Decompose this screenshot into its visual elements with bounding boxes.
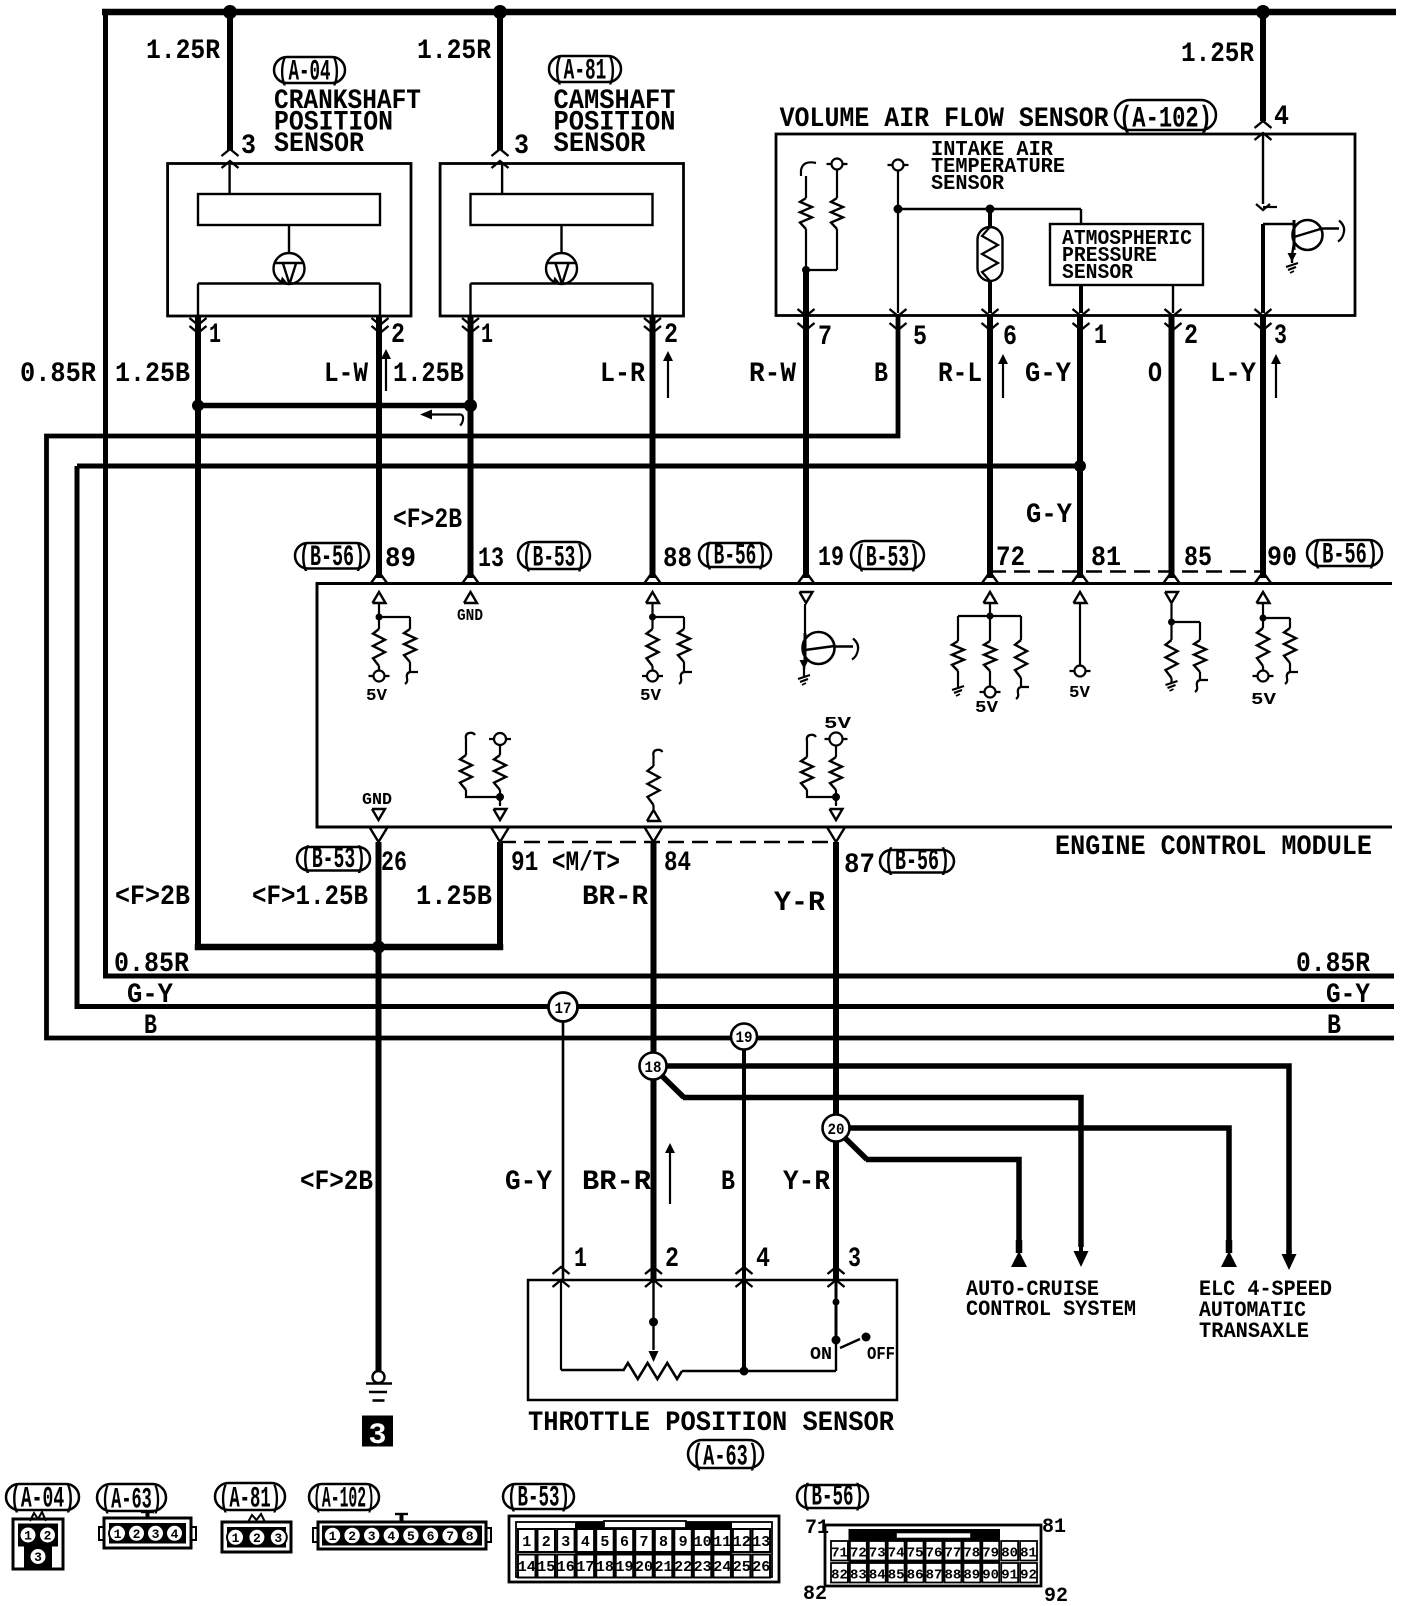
wire: R-L from VAF pin 6 to ECM pin 72 bbox=[987, 315, 993, 578]
connector capsule B-56 (pin 89) bbox=[295, 543, 369, 569]
svg-text:6: 6 bbox=[1003, 322, 1017, 353]
wire: APS pin 2 drop bbox=[1172, 285, 1174, 313]
svg-text:72: 72 bbox=[996, 543, 1025, 574]
wire: main 1.25R power bus (top) bbox=[102, 9, 1396, 16]
VAF pin 2 terminal bbox=[1165, 309, 1182, 316]
cam pin 1 terminal bbox=[462, 318, 479, 325]
svg-text:5V: 5V bbox=[640, 687, 662, 706]
wire: 1.25B from ECM pin 91 down to junction bbox=[497, 842, 503, 947]
wire: 1.25R drop to camshaft sensor pin 3 bbox=[497, 12, 503, 150]
node: junction dot G-Y branch bbox=[1074, 460, 1086, 472]
connector capsule B-56 (pin 88) bbox=[699, 543, 771, 567]
svg-text:Y-R: Y-R bbox=[774, 888, 825, 919]
svg-text:(A-04): (A-04) bbox=[278, 55, 341, 89]
connector capsule A-63 (TPS) bbox=[688, 1440, 763, 1468]
svg-text:G-Y: G-Y bbox=[1025, 359, 1071, 390]
transistor inside ECM (pin 19) bbox=[803, 632, 835, 664]
cam pin 2 terminal bbox=[644, 318, 661, 325]
VAF pin 3 terminal bbox=[1255, 309, 1272, 316]
svg-text:26: 26 bbox=[752, 1559, 770, 1576]
svg-text:3: 3 bbox=[561, 1534, 570, 1551]
svg-text:18: 18 bbox=[596, 1559, 614, 1576]
splice 18 on BR-R wire bbox=[640, 1053, 667, 1080]
wire: APS pin 1 drop bbox=[1079, 285, 1083, 313]
ECM internal: pin 72 network (3 resistors to 5V) bbox=[984, 592, 997, 603]
component: throttle position sensor box bbox=[528, 1280, 897, 1400]
VAF internal: pin 4 feed stub with end tick bbox=[1262, 134, 1264, 204]
svg-text:26: 26 bbox=[381, 848, 407, 879]
wire: 1.25B from crank pin 1 down to junction and ECM area bbox=[195, 316, 201, 947]
svg-text:24: 24 bbox=[713, 1559, 731, 1576]
svg-text:74: 74 bbox=[888, 1546, 905, 1562]
svg-text:1.25B: 1.25B bbox=[416, 882, 492, 913]
svg-text:1: 1 bbox=[209, 320, 221, 351]
svg-text:21: 21 bbox=[654, 1559, 672, 1576]
svg-text:1.25R: 1.25R bbox=[146, 36, 220, 67]
svg-text:2: 2 bbox=[348, 1529, 356, 1544]
svg-text:81: 81 bbox=[1042, 1516, 1066, 1539]
component: atmospheric pressure sensor box bbox=[1080, 209, 1082, 224]
svg-text:71: 71 bbox=[831, 1546, 848, 1562]
svg-text:92: 92 bbox=[1020, 1568, 1037, 1584]
svg-text:10: 10 bbox=[694, 1534, 712, 1551]
svg-text:22: 22 bbox=[674, 1559, 692, 1576]
svg-text:73: 73 bbox=[869, 1546, 886, 1562]
VAF internal: intake air temperature sensor terminal bbox=[888, 164, 909, 166]
node: junction dot bus/camshaft feed bbox=[493, 5, 507, 19]
svg-text:(B-53): (B-53) bbox=[301, 842, 366, 876]
svg-text:19: 19 bbox=[615, 1559, 633, 1576]
svg-text:G-Y: G-Y bbox=[1326, 980, 1370, 1011]
wire: junction bar at bottom (1.25B tie) bbox=[198, 944, 500, 947]
svg-text:(A-81): (A-81) bbox=[553, 54, 617, 88]
flow arrow beside L-W wire bbox=[385, 355, 387, 391]
svg-text:VOLUME AIR FLOW SENSOR: VOLUME AIR FLOW SENSOR bbox=[780, 104, 1109, 135]
VAF internal: output transistor bbox=[1263, 223, 1294, 225]
TPS internal: pin 1 leg to potentiometer bbox=[560, 1280, 562, 1370]
node: junction dot at cam pin1 wire bbox=[464, 399, 477, 412]
connector capsule A-81 bbox=[549, 56, 621, 82]
svg-text:86: 86 bbox=[907, 1568, 924, 1584]
wire: IAT sensor vertical to pin 5 bbox=[897, 171, 899, 314]
flow arrow beside L-R wire bbox=[667, 357, 669, 398]
svg-text:<F>2B: <F>2B bbox=[300, 1167, 373, 1198]
svg-text:(B-53): (B-53) bbox=[522, 541, 586, 575]
svg-text:G-Y: G-Y bbox=[1026, 500, 1072, 531]
svg-text:ENGINE CONTROL MODULE: ENGINE CONTROL MODULE bbox=[1055, 832, 1372, 863]
flow arrow beside R-L wire bbox=[1002, 360, 1004, 398]
svg-text:1: 1 bbox=[329, 1529, 337, 1544]
connector capsule B-53 (pin 26) bbox=[297, 847, 370, 871]
ground reference number 3 (black box) bbox=[362, 1416, 393, 1447]
wire: BR-R from ECM pin 84 down to TPS pin 2 bbox=[651, 842, 657, 1280]
TPS internal: potentiometer resistor bbox=[623, 1363, 682, 1379]
wire: B from splice 19 down to TPS pin 4 bbox=[742, 1050, 746, 1281]
svg-text:2: 2 bbox=[44, 1529, 52, 1544]
svg-text:8: 8 bbox=[466, 1529, 474, 1544]
wire: BR-R branch from splice 18 to ELC transaxle (right, down-arrow) bbox=[667, 1066, 1290, 1253]
svg-text:(B-56): (B-56) bbox=[1311, 538, 1378, 572]
ground symbol (body ground) bbox=[373, 1371, 385, 1383]
VAF pin 7 terminal bbox=[798, 309, 815, 316]
svg-text:SENSOR: SENSOR bbox=[274, 129, 364, 160]
crank pin 2 terminal bbox=[372, 318, 389, 325]
TPS internal: pin 4 leg bbox=[742, 1280, 746, 1371]
svg-text:(A-102): (A-102) bbox=[313, 1482, 375, 1516]
wire: L-R from cam pin 2 down to ECM pin 88 bbox=[650, 316, 656, 578]
svg-text:(B-56): (B-56) bbox=[801, 1480, 864, 1514]
svg-text:3: 3 bbox=[514, 131, 529, 162]
svg-text:19: 19 bbox=[818, 543, 844, 574]
svg-text:0.85R: 0.85R bbox=[1296, 949, 1370, 980]
svg-text:SENSOR: SENSOR bbox=[554, 129, 646, 160]
wire: Y-R branch from splice 20 to ELC transaxle (up-triangle) bbox=[850, 1128, 1230, 1248]
svg-text:20: 20 bbox=[828, 1121, 845, 1139]
svg-text:4: 4 bbox=[171, 1527, 179, 1542]
svg-text:1.25B: 1.25B bbox=[393, 359, 464, 390]
ECM internal: pin 90 network (pull-up to 5V) bbox=[1257, 592, 1270, 603]
svg-text:0.85R: 0.85R bbox=[20, 359, 96, 390]
wire: B from VAF pin 5, turns left bbox=[47, 315, 1395, 1038]
wire: 0.85R left border drop bbox=[106, 9, 1395, 976]
component: camshaft position sensor box with pickup coil bbox=[440, 164, 683, 317]
ECM internal: pin 88 input network (pull-up to 5V) bbox=[646, 592, 659, 603]
svg-text:5: 5 bbox=[407, 1529, 415, 1544]
svg-text:1: 1 bbox=[522, 1534, 531, 1551]
svg-text:<F>2B: <F>2B bbox=[115, 882, 190, 913]
connector view A-81 bbox=[215, 1483, 285, 1510]
TPS internal: output rail to pin 3 leg bbox=[682, 1370, 836, 1372]
svg-text:7: 7 bbox=[818, 322, 832, 353]
svg-text:4: 4 bbox=[1274, 102, 1289, 133]
svg-text:(A-102): (A-102) bbox=[1119, 102, 1212, 136]
svg-text:8: 8 bbox=[659, 1534, 668, 1551]
svg-text:4: 4 bbox=[756, 1244, 770, 1275]
svg-text:<F>2B: <F>2B bbox=[393, 505, 462, 536]
connector capsule B-56 (pin 90) bbox=[1307, 540, 1382, 566]
svg-text:72: 72 bbox=[850, 1546, 867, 1562]
svg-text:L-R: L-R bbox=[600, 359, 645, 390]
svg-text:83: 83 bbox=[850, 1568, 867, 1584]
splice 20 on Y-R wire bbox=[823, 1115, 850, 1142]
svg-text:82: 82 bbox=[831, 1568, 848, 1584]
svg-text:(B-53): (B-53) bbox=[855, 541, 920, 575]
node: junction dot (F)2B / 1.25B tie bbox=[372, 941, 385, 954]
ECM internal: pin 91 divider network bbox=[466, 733, 475, 744]
flow arrow beside L-Y wire bbox=[1275, 360, 1277, 398]
dashed connector grouping line pins 72-90 bbox=[990, 570, 1263, 572]
svg-text:2: 2 bbox=[542, 1534, 551, 1551]
ECM internal: pin 84 resistor bbox=[653, 750, 662, 761]
svg-text:2: 2 bbox=[133, 1527, 141, 1542]
svg-text:1: 1 bbox=[232, 1531, 240, 1546]
node: junction dot bus/VAF feed bbox=[1256, 5, 1270, 19]
svg-text:BR-R: BR-R bbox=[582, 882, 648, 913]
connector view B-56 (92-way, rows 71-92) bbox=[797, 1485, 868, 1508]
svg-text:(B-53): (B-53) bbox=[507, 1481, 570, 1515]
svg-text:0.85R: 0.85R bbox=[114, 949, 189, 980]
connector capsule A-102 (title) bbox=[1115, 100, 1216, 130]
svg-text:81: 81 bbox=[1020, 1546, 1037, 1562]
svg-text:89: 89 bbox=[963, 1568, 980, 1584]
svg-text:B: B bbox=[874, 359, 888, 390]
svg-text:3: 3 bbox=[369, 1419, 387, 1453]
svg-text:87: 87 bbox=[926, 1568, 943, 1584]
ECM internal: pin 85 network bbox=[1165, 592, 1178, 603]
svg-text:89: 89 bbox=[385, 544, 416, 575]
svg-text:G-Y: G-Y bbox=[505, 1167, 552, 1198]
connector capsule B-53 (pin 13) bbox=[518, 542, 590, 569]
svg-text:3: 3 bbox=[1274, 321, 1287, 352]
svg-text:R-L: R-L bbox=[938, 359, 982, 390]
wire: 1.25R drop to crankshaft sensor pin 3 bbox=[227, 12, 233, 150]
wire: junction bar joining crank pin1 and cam pin1 (1.25B) bbox=[195, 403, 471, 409]
svg-text:ON: ON bbox=[810, 1345, 832, 1365]
svg-text:84: 84 bbox=[869, 1568, 886, 1584]
svg-text:76: 76 bbox=[926, 1546, 943, 1562]
component: crankshaft position sensor box with pickup coil bbox=[168, 164, 411, 317]
svg-text:GND: GND bbox=[457, 607, 483, 626]
svg-text:3: 3 bbox=[368, 1529, 376, 1544]
svg-text:19: 19 bbox=[736, 1029, 753, 1047]
TPS internal: pin 2 wiper bbox=[652, 1280, 654, 1350]
connector view A-04 bbox=[6, 1484, 79, 1510]
svg-text:(B-56): (B-56) bbox=[884, 844, 950, 878]
svg-text:THROTTLE POSITION SENSOR: THROTTLE POSITION SENSOR bbox=[528, 1408, 894, 1439]
svg-text:1.25B: 1.25B bbox=[115, 359, 190, 390]
wire: 1.25R drop to VAF sensor pin 4 bbox=[1260, 12, 1266, 121]
svg-text:5: 5 bbox=[600, 1534, 609, 1551]
svg-text:SENSOR: SENSOR bbox=[931, 173, 1004, 196]
node: junction dot IAT net bbox=[894, 205, 903, 214]
svg-text:23: 23 bbox=[694, 1559, 712, 1576]
svg-text:L-Y: L-Y bbox=[1210, 359, 1256, 390]
svg-text:B: B bbox=[1327, 1011, 1341, 1042]
svg-text:13: 13 bbox=[752, 1534, 770, 1551]
svg-text:16: 16 bbox=[557, 1559, 575, 1576]
svg-text:9: 9 bbox=[679, 1534, 688, 1551]
VAF pin 5 terminal bbox=[890, 309, 907, 316]
svg-text:1.25R: 1.25R bbox=[1181, 39, 1254, 70]
svg-text:1: 1 bbox=[24, 1529, 32, 1544]
VAF internal: resistor leg A (pin 7) bbox=[805, 176, 807, 198]
wire: G-Y from VAF pin 1 to ECM pin 81 with branch left bbox=[1077, 315, 1083, 578]
wire: (F)2B from ECM pin 26 down to ground point bbox=[376, 842, 382, 1371]
connector capsule B-53 (pin 19) bbox=[851, 541, 924, 569]
svg-text:B: B bbox=[721, 1167, 735, 1198]
wire: L-Y from VAF pin 3 to ECM pin 90 bbox=[1260, 315, 1266, 578]
svg-text:5V: 5V bbox=[824, 715, 852, 734]
svg-text:13: 13 bbox=[478, 544, 504, 575]
svg-text:O: O bbox=[1148, 359, 1162, 390]
svg-text:11: 11 bbox=[713, 1534, 731, 1551]
VAF internal: flap switch contact bbox=[801, 162, 816, 176]
svg-text:BR-R: BR-R bbox=[582, 1167, 651, 1198]
TPS pin 3 terminal bbox=[828, 1267, 845, 1274]
svg-text:77: 77 bbox=[944, 1546, 961, 1562]
svg-text:2: 2 bbox=[1184, 321, 1198, 352]
connector view A-63 bbox=[97, 1484, 166, 1511]
flow arrow beside BR-R wire bbox=[669, 1149, 671, 1204]
svg-text:6: 6 bbox=[427, 1529, 435, 1544]
svg-text:88: 88 bbox=[663, 544, 692, 575]
svg-text:1: 1 bbox=[114, 1527, 122, 1542]
svg-text:2: 2 bbox=[665, 1244, 679, 1275]
idle switch lever and OFF contact bbox=[840, 1339, 860, 1348]
ECM internal: pin 13 ground reference bbox=[464, 592, 477, 603]
svg-text:18: 18 bbox=[645, 1059, 662, 1077]
ECM pin funnels (bottom row) bbox=[370, 828, 379, 842]
svg-text:25: 25 bbox=[733, 1559, 751, 1576]
svg-text:5V: 5V bbox=[975, 699, 999, 718]
svg-text:3: 3 bbox=[241, 131, 256, 162]
svg-text:(A-81): (A-81) bbox=[219, 1482, 281, 1516]
node: junction dot bus/crankshaft feed bbox=[223, 5, 237, 19]
svg-text:1.25R: 1.25R bbox=[417, 36, 491, 67]
svg-text:3: 3 bbox=[274, 1531, 282, 1546]
wire: G-Y from splice 17 down to TPS pin 1 bbox=[562, 1022, 565, 1281]
wire: Y-R from ECM pin 87 down to TPS pin 3 bbox=[833, 842, 839, 1280]
svg-text:82: 82 bbox=[803, 1583, 827, 1606]
component: volume air flow sensor box bbox=[776, 134, 1355, 316]
splice 17 on G-Y bus bbox=[549, 993, 578, 1022]
svg-text:91 <M/T>: 91 <M/T> bbox=[511, 848, 620, 879]
svg-text:5: 5 bbox=[913, 322, 927, 353]
flow arrow (left) under junction bar bbox=[424, 413, 461, 415]
svg-text:7: 7 bbox=[446, 1529, 454, 1544]
svg-text:88: 88 bbox=[944, 1568, 961, 1584]
connector view A-102 bbox=[309, 1484, 379, 1510]
connector capsule B-56 (pin 87) bbox=[880, 850, 954, 873]
svg-text:OFF: OFF bbox=[867, 1345, 895, 1365]
node: junction dot at thermistor bbox=[986, 205, 995, 214]
svg-text:GND: GND bbox=[362, 791, 392, 810]
wire: Y-R branch from splice 20 to auto-cruise (up-triangle) bbox=[844, 1137, 867, 1160]
svg-text:12: 12 bbox=[733, 1534, 751, 1551]
ECM internal: pin 81 reference to 5V bbox=[1074, 592, 1087, 603]
svg-text:4: 4 bbox=[387, 1529, 395, 1544]
svg-text:6: 6 bbox=[620, 1534, 629, 1551]
svg-text:90: 90 bbox=[1267, 543, 1297, 574]
wire: R-W from VAF pin 7 to ECM pin 19 bbox=[803, 270, 809, 578]
svg-text:3: 3 bbox=[34, 1550, 42, 1565]
svg-text:78: 78 bbox=[963, 1546, 980, 1562]
svg-text:81: 81 bbox=[1091, 543, 1121, 574]
wire: IAT net horizontal to thermistor and APS bbox=[898, 208, 1081, 210]
svg-text:SENSOR: SENSOR bbox=[1062, 262, 1133, 285]
svg-text:7: 7 bbox=[639, 1534, 648, 1551]
svg-text:15: 15 bbox=[537, 1559, 555, 1576]
svg-text:TRANSAXLE: TRANSAXLE bbox=[1199, 1319, 1309, 1344]
svg-text:91: 91 bbox=[1001, 1568, 1018, 1584]
node: junction dot pin 4 rail bbox=[740, 1367, 749, 1376]
svg-text:1: 1 bbox=[574, 1244, 587, 1275]
VAF internal: terminal circle + resistor leg B bbox=[827, 163, 848, 165]
splice 19 on B bus bbox=[731, 1024, 757, 1050]
svg-text:20: 20 bbox=[635, 1559, 653, 1576]
TPS pin 1 terminal bbox=[553, 1267, 570, 1274]
TPS internal: pin 3 leg with idle switch bbox=[835, 1280, 838, 1306]
svg-text:G-Y: G-Y bbox=[127, 980, 173, 1011]
ECM pin funnels (top row) bbox=[371, 572, 379, 583]
svg-text:Y-R: Y-R bbox=[783, 1167, 830, 1198]
svg-text:3: 3 bbox=[152, 1527, 160, 1542]
connector capsule A-04 bbox=[274, 57, 345, 83]
svg-text:5V: 5V bbox=[1251, 691, 1277, 710]
connector view B-53 (26-way) bbox=[503, 1484, 574, 1509]
svg-text:80: 80 bbox=[1001, 1546, 1018, 1562]
svg-text:L-W: L-W bbox=[324, 359, 368, 390]
svg-text:75: 75 bbox=[907, 1546, 924, 1562]
svg-text:5V: 5V bbox=[366, 687, 388, 706]
svg-text:CONTROL SYSTEM: CONTROL SYSTEM bbox=[966, 1297, 1136, 1322]
svg-text:17: 17 bbox=[576, 1559, 594, 1576]
svg-text:85: 85 bbox=[888, 1568, 905, 1584]
ECM internal: pin 89 input network (pull-up to 5V) bbox=[373, 592, 386, 603]
svg-text:3: 3 bbox=[848, 1244, 861, 1275]
node: junction dot at crank pin1 wire bbox=[192, 400, 204, 412]
dashed connector grouping line pins 91-87 bbox=[500, 841, 836, 843]
TPS pin 4 terminal bbox=[736, 1267, 753, 1274]
svg-text:2: 2 bbox=[391, 320, 405, 351]
wire: L-W from crank pin 2 down to ECM pin 89 bbox=[376, 316, 382, 578]
wire: BR-R branch from splice 18 to auto-cruise (diagonal, down-arrow) bbox=[661, 1075, 684, 1098]
svg-text:87: 87 bbox=[844, 850, 875, 881]
TPS pin 2 terminal bbox=[645, 1267, 662, 1274]
svg-text:5V: 5V bbox=[1069, 684, 1091, 703]
VAF pin 1 terminal bbox=[1073, 309, 1090, 316]
svg-text:90: 90 bbox=[982, 1568, 999, 1584]
crank pin 1 terminal bbox=[190, 318, 207, 325]
svg-text:(A-63): (A-63) bbox=[692, 1440, 759, 1474]
svg-text:92: 92 bbox=[1044, 1585, 1068, 1606]
svg-text:85: 85 bbox=[1184, 543, 1212, 574]
svg-text:(B-56): (B-56) bbox=[703, 539, 767, 573]
svg-text:1: 1 bbox=[1094, 321, 1107, 352]
wire: O from VAF pin 2 to ECM pin 85 bbox=[1169, 315, 1175, 578]
VAF pin 6 terminal bbox=[982, 309, 999, 316]
svg-text:B: B bbox=[144, 1011, 157, 1042]
wire: 1.25B from cam pin 1 down to ECM pin 13 bbox=[468, 316, 474, 578]
svg-text:14: 14 bbox=[518, 1559, 536, 1576]
component: engine control module box bbox=[317, 584, 1392, 828]
svg-text:<F>1.25B: <F>1.25B bbox=[252, 882, 368, 913]
svg-text:4: 4 bbox=[581, 1534, 590, 1551]
svg-text:17: 17 bbox=[555, 1000, 572, 1018]
svg-text:1: 1 bbox=[481, 320, 493, 351]
svg-text:2: 2 bbox=[253, 1531, 261, 1546]
svg-text:84: 84 bbox=[664, 848, 691, 879]
svg-text:(B-56): (B-56) bbox=[299, 540, 365, 574]
component: thermistor (intake air temp sensing element) bbox=[988, 209, 992, 228]
svg-text:79: 79 bbox=[982, 1546, 999, 1562]
svg-text:R-W: R-W bbox=[749, 359, 796, 390]
ECM internal: pin 19 driver transistor bbox=[800, 592, 813, 603]
svg-text:2: 2 bbox=[664, 320, 678, 351]
